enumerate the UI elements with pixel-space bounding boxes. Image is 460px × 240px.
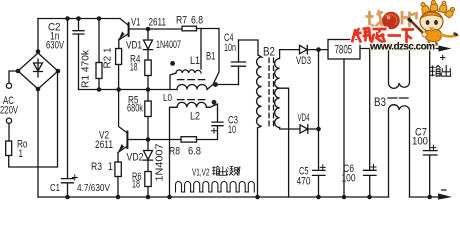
capacitor C7 bbox=[424, 49, 438, 198]
wire C4 top to B2 primary top bbox=[239, 40, 259, 55]
svg-text:470: 470 bbox=[297, 176, 311, 188]
capacitor C1 bbox=[62, 19, 74, 198]
svg-text:R3: R3 bbox=[91, 161, 102, 173]
node C6 rail bbox=[367, 195, 372, 200]
watermark mascot crown bbox=[421, 0, 455, 18]
wire B2 secondary top to VD3 bbox=[280, 49, 300, 51]
label R5 bbox=[128, 95, 139, 107]
svg-text:V1: V1 bbox=[131, 16, 141, 28]
label B2 bbox=[263, 45, 275, 59]
polarity dot L0 bbox=[213, 82, 218, 87]
label B3 bbox=[374, 95, 386, 109]
node VD4 output bbox=[316, 127, 321, 132]
wire AC terminal 2 to Ro bbox=[8, 123, 10, 141]
transformer B2 primary winding bbox=[257, 55, 262, 128]
watermark red ball bbox=[382, 12, 400, 30]
terminal AC circle 2 bbox=[6, 118, 11, 123]
label R7 bbox=[176, 15, 187, 27]
svg-text:7805: 7805 bbox=[335, 45, 353, 57]
svg-text:R2 1: R2 1 bbox=[103, 47, 114, 68]
polarity plus C6 bbox=[371, 165, 376, 170]
label Ro value 1 bbox=[19, 148, 24, 160]
svg-text:B2: B2 bbox=[263, 45, 275, 59]
core dashes B3 bbox=[388, 97, 408, 99]
label R6 bbox=[132, 171, 142, 183]
label VD2 bbox=[127, 152, 144, 164]
svg-text:10: 10 bbox=[228, 124, 236, 136]
svg-text:1: 1 bbox=[108, 161, 113, 173]
label VD1 type 1N4007 bbox=[156, 39, 181, 51]
svg-text:18: 18 bbox=[130, 62, 138, 74]
diode VD1 bbox=[144, 29, 153, 60]
polarity plus C7 bbox=[431, 145, 436, 150]
svg-text:C1: C1 bbox=[50, 182, 60, 194]
node C5 rail bbox=[316, 195, 321, 200]
node top rail junction C2 bbox=[76, 16, 81, 21]
label C1 value bbox=[77, 182, 110, 194]
regulator U1 7805 box bbox=[328, 40, 360, 60]
arrow V1 emitter bbox=[118, 31, 124, 40]
label C4 value 10n bbox=[224, 42, 236, 54]
label R3 value 1 bbox=[108, 161, 113, 173]
wire bottom rail right section bbox=[410, 196, 441, 198]
wire AC terminal 1 to bridge left bbox=[9, 71, 18, 83]
label C5 bbox=[299, 166, 309, 178]
wire bridge bottom to bottom rail bbox=[37, 89, 39, 197]
resistor R2 bbox=[116, 49, 122, 90]
svg-text:VD1: VD1 bbox=[126, 40, 142, 52]
resistor R3 bbox=[115, 162, 121, 197]
bridge rectifier diamond bbox=[18, 53, 58, 89]
label output CJK 输出 bbox=[430, 65, 451, 76]
resistor R4 bbox=[145, 60, 151, 90]
label C1 bbox=[50, 182, 60, 194]
arrow V2 emitter bbox=[118, 144, 124, 153]
label output minus sign bbox=[441, 189, 446, 191]
label R8 bbox=[169, 146, 180, 158]
node top rail junction C1 bbox=[65, 16, 70, 21]
wire L1 left lead bbox=[170, 73, 176, 90]
wire B2 secondary bottom to VD4 bbox=[280, 128, 300, 130]
transformer B2 secondary winding bbox=[275, 50, 280, 128]
wire 7805 ground bbox=[343, 59, 345, 197]
label Ro bbox=[17, 139, 28, 151]
node 7805 ground rail bbox=[342, 195, 347, 200]
node output plus bbox=[427, 46, 432, 51]
label R5 value 680k bbox=[127, 103, 143, 115]
transistor V1 bbox=[119, 19, 148, 41]
node R3 bottom rail bbox=[116, 195, 121, 200]
watermark outlined char 找 bbox=[366, 10, 386, 31]
node bridge bottom vertex bbox=[36, 87, 41, 92]
label L1 bbox=[190, 55, 200, 67]
inductor L1 winding bbox=[176, 70, 201, 73]
resistor R1 bbox=[96, 19, 102, 90]
label 7805 bbox=[335, 45, 353, 57]
node bridge top vertex bbox=[36, 49, 41, 54]
svg-text:R7: R7 bbox=[176, 15, 187, 27]
polarity plus C5 bbox=[320, 165, 325, 170]
capacitor C6 bbox=[364, 49, 377, 198]
label R4 value 18 bbox=[130, 62, 138, 74]
wire V1 emitter down bbox=[118, 40, 120, 49]
svg-text:6.8: 6.8 bbox=[191, 15, 203, 27]
node B2 primary rail bbox=[255, 195, 260, 200]
node C7 rail bbox=[427, 195, 432, 200]
resistor R7 bbox=[182, 26, 197, 31]
svg-text:VD3: VD3 bbox=[296, 55, 311, 67]
svg-text:R1 470k: R1 470k bbox=[81, 49, 92, 88]
polarity plus C3 bbox=[212, 128, 217, 133]
label R4 bbox=[130, 54, 141, 66]
node L2 rail bbox=[167, 195, 172, 200]
label V2 bbox=[99, 130, 109, 142]
svg-text:18: 18 bbox=[132, 179, 140, 191]
arrow output plus bbox=[439, 46, 452, 52]
label R7 value 6.8 bbox=[191, 15, 203, 27]
wire Ro bottom to bridge right vertex bbox=[9, 71, 58, 167]
svg-text:1N4007: 1N4007 bbox=[156, 39, 181, 51]
svg-text:L2: L2 bbox=[190, 111, 200, 123]
label C7 bbox=[415, 127, 427, 139]
label VD1 bbox=[126, 40, 142, 52]
diode inside bridge bbox=[34, 59, 43, 77]
svg-text:1N4007: 1N4007 bbox=[155, 143, 166, 181]
watermark red text white underlay bbox=[352, 28, 414, 44]
resistor R8 bbox=[181, 137, 197, 142]
label V2 type 2611 bbox=[95, 139, 113, 151]
wire L2 left lead down to rail bbox=[170, 107, 178, 197]
label C2 bbox=[48, 22, 61, 34]
inductor L0 winding bbox=[177, 85, 207, 90]
label C3 bbox=[228, 115, 238, 127]
label waveform caption CJK 输出波形 bbox=[212, 166, 240, 176]
svg-text:2611: 2611 bbox=[95, 139, 113, 151]
polarity dot L2 bbox=[212, 100, 217, 105]
resistor Ro bbox=[6, 141, 12, 156]
capacitor C4 bbox=[232, 40, 246, 85]
core dashes B1 upper bbox=[178, 79, 207, 81]
inductor B3 bottom winding bbox=[389, 105, 410, 197]
arrow bottom rail output minus bbox=[438, 193, 452, 199]
inductor L2 winding bbox=[177, 102, 206, 107]
node VD3 output bbox=[316, 47, 321, 52]
svg-text:1: 1 bbox=[19, 148, 24, 160]
wire VD3 node down through VD4 node to C5 bbox=[318, 50, 320, 171]
node VD1 tap bbox=[146, 27, 151, 32]
node C1 bottom rail bbox=[65, 195, 70, 200]
label C4 bbox=[224, 32, 234, 44]
node R2 bottom mid rail bbox=[116, 87, 121, 92]
label C2 value 1n bbox=[50, 31, 60, 43]
wire R7 to B1 right side bbox=[197, 29, 220, 85]
inductor B3 top winding bbox=[389, 49, 410, 89]
watermark url www.dzsc.com bbox=[369, 41, 435, 52]
label V1 V2 waveform caption latin part bbox=[192, 168, 210, 179]
waveform V1 V2 output bbox=[176, 182, 255, 193]
core dashes B1 lower bbox=[178, 99, 207, 101]
wire B2 primary bottom to rail bbox=[257, 128, 259, 197]
label R1 470k rotated bbox=[81, 49, 92, 88]
wire R8 to C3 bbox=[197, 126, 218, 140]
label VD3 bbox=[296, 55, 311, 67]
label AC bbox=[3, 95, 14, 107]
diode VD3 bbox=[300, 45, 329, 53]
wire bottom rail left section bbox=[38, 196, 389, 198]
wire top rail bbox=[38, 18, 120, 20]
wire V2 base to R8 bbox=[148, 139, 181, 141]
label B1 bbox=[206, 51, 216, 63]
resistor R5 bbox=[145, 90, 151, 140]
wire L0 right lead bbox=[207, 85, 239, 90]
label R6 value 18 bbox=[132, 179, 140, 191]
label C2 value 630V bbox=[46, 40, 64, 52]
node V2 base junction bbox=[146, 137, 151, 142]
resistor R6 bbox=[145, 172, 151, 198]
svg-text:R8: R8 bbox=[169, 146, 180, 158]
svg-text:L1: L1 bbox=[190, 55, 200, 67]
diode VD4 bbox=[300, 125, 318, 133]
label R3 bbox=[91, 161, 102, 173]
svg-text:V1,V2: V1,V2 bbox=[192, 168, 210, 179]
label L2 bbox=[190, 111, 200, 123]
label 220V bbox=[0, 105, 18, 117]
node R1 bottom mid rail bbox=[97, 87, 102, 92]
label C6 bbox=[343, 163, 354, 175]
wire L2 right lead to C3 bbox=[206, 104, 217, 110]
transistor V2 bbox=[118, 90, 148, 153]
label R2 1 rotated bbox=[103, 47, 114, 68]
label R8 value 6.8 bbox=[188, 146, 201, 158]
svg-text:100: 100 bbox=[342, 172, 356, 184]
svg-text:6.8: 6.8 bbox=[188, 146, 201, 158]
svg-text:B3: B3 bbox=[374, 95, 386, 109]
label C7 value 100 bbox=[412, 136, 428, 148]
label V1 bbox=[131, 16, 141, 28]
capacitor C3 bbox=[212, 110, 223, 126]
wire V1 base to R7 bbox=[148, 28, 182, 30]
node bridge right vertex bbox=[56, 69, 61, 74]
svg-text:VD4: VD4 bbox=[298, 112, 310, 124]
label L0 bbox=[163, 92, 172, 104]
svg-text:220V: 220V bbox=[0, 105, 18, 117]
watermark mascot head bbox=[420, 12, 443, 32]
capacitor C2 bbox=[73, 19, 84, 90]
svg-text:680k: 680k bbox=[127, 103, 143, 115]
node R6 bottom rail bbox=[146, 195, 151, 200]
capacitor C5 bbox=[313, 170, 326, 197]
wire L1 right end up bbox=[200, 29, 202, 70]
label V1 type 2611 bbox=[149, 16, 167, 28]
label C5 value 470 bbox=[297, 176, 311, 188]
svg-text:10n: 10n bbox=[224, 42, 236, 54]
wire B2 center tap to rail bbox=[280, 88, 289, 197]
watermark red text 维库一下 bbox=[352, 28, 414, 44]
node R4 bottom mid rail bbox=[146, 87, 151, 92]
diode VD2 bbox=[144, 140, 153, 172]
label VD2 type 1N4007 rotated bbox=[155, 143, 166, 181]
label C6 value 100 bbox=[342, 172, 356, 184]
svg-text:VD2: VD2 bbox=[127, 152, 144, 164]
node top rail junction R1 bbox=[97, 16, 102, 21]
label VD4 bbox=[298, 112, 310, 124]
svg-text:4.7/630V: 4.7/630V bbox=[77, 182, 110, 194]
svg-text:L0: L0 bbox=[163, 92, 172, 104]
watermark outlined char 片 bbox=[402, 11, 417, 29]
core dashes B2 bbox=[269, 58, 274, 128]
polarity plus C1 bbox=[72, 175, 77, 180]
label output plus sign bbox=[440, 55, 445, 60]
wire V2 emitter to R3 bbox=[117, 153, 119, 163]
svg-text:630V: 630V bbox=[46, 40, 64, 52]
svg-text:www.dzsc.com: www.dzsc.com bbox=[369, 41, 435, 52]
label C3 value 10 bbox=[228, 124, 236, 136]
polarity dot L1 bbox=[170, 61, 175, 66]
wire bridge top lead bbox=[37, 19, 39, 54]
terminal AC circle 1 bbox=[6, 83, 11, 88]
svg-text:2611: 2611 bbox=[149, 16, 167, 28]
node bridge left vertex bbox=[16, 69, 21, 74]
svg-text:B1: B1 bbox=[206, 51, 216, 63]
wire 7805 output bbox=[360, 48, 444, 50]
watermark mascot body and arm bbox=[408, 19, 457, 46]
wire mid rail bbox=[79, 89, 178, 91]
svg-text:100: 100 bbox=[412, 136, 428, 148]
